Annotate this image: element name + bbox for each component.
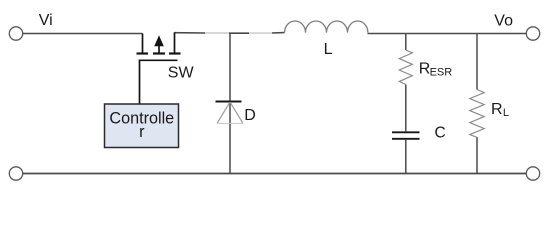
svg-text:L: L (324, 41, 333, 58)
svg-text:D: D (244, 107, 256, 124)
svg-text:R: R (419, 60, 431, 77)
svg-text:L: L (503, 107, 509, 119)
svg-text:Vo: Vo (494, 12, 513, 29)
svg-text:R: R (491, 101, 503, 118)
svg-text:SW: SW (168, 65, 195, 82)
svg-text:r: r (139, 123, 145, 141)
svg-text:C: C (435, 125, 446, 142)
svg-text:Vi: Vi (39, 12, 53, 29)
svg-text:ESR: ESR (430, 67, 453, 79)
